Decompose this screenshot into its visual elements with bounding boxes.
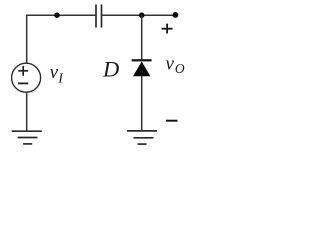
diode D triangle (anode, pointing up) [133, 61, 150, 76]
svg-text:I: I [57, 70, 64, 85]
ground (right, below diode) [127, 131, 157, 144]
svg-text:O: O [175, 61, 185, 76]
wire: top-left horizontal from source top corner to capacitor left plate [27, 15, 96, 63]
label: - output polarity [166, 120, 178, 122]
wire: diode anode down to ground [141, 76, 143, 131]
capacitor C (right plate) [101, 4, 103, 27]
svg-text:v: v [166, 54, 175, 75]
label: + output polarity [162, 24, 173, 34]
voltage source vI circle [12, 63, 41, 92]
label: - inside source [18, 82, 28, 84]
capacitor C (left plate) [95, 4, 97, 27]
wire: source bottom to ground [26, 92, 28, 131]
wire: top-right horizontal from capacitor right plate to output terminal [102, 14, 176, 16]
wire: diode branch from top node down to diode cathode [141, 15, 143, 59]
node: junction dot at diode branch [139, 12, 145, 18]
node: output terminal dot top right [173, 12, 179, 18]
diode D cathode bar [132, 59, 152, 61]
ground (left, below source) [12, 131, 42, 144]
label: + inside source [18, 66, 28, 76]
svg-text:D: D [102, 57, 119, 82]
svg-text:v: v [50, 62, 59, 83]
node: junction dot left of capacitor [54, 12, 60, 18]
